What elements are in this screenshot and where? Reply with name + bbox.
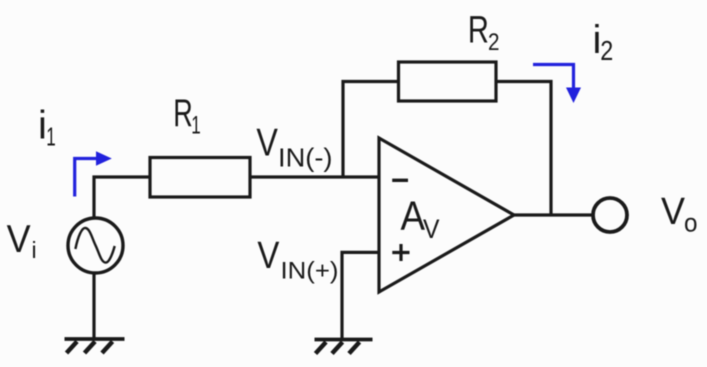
current arrow i1 (blue): [75, 151, 112, 196]
svg-text:R: R: [468, 10, 489, 52]
svg-text:1: 1: [191, 112, 201, 140]
svg-text:V: V: [423, 214, 440, 244]
op-amp minus pin mark: [392, 179, 408, 182]
wire: main input horizontal from source corner to op-amp inverting input: [94, 177, 379, 217]
current arrow i2 (blue): [533, 65, 581, 104]
svg-text:V: V: [256, 122, 278, 165]
sine wave inside source: [75, 228, 114, 263]
ground (right, under non-inverting input): [315, 340, 373, 354]
op-amp plus pin mark: [392, 244, 409, 261]
svg-text:2: 2: [600, 35, 613, 66]
ground (left, under source): [65, 339, 125, 353]
svg-text:1: 1: [46, 122, 56, 152]
wire: non-inverting input to right ground: [342, 252, 379, 340]
output terminal circle: [593, 198, 627, 232]
svg-text:V: V: [661, 191, 686, 233]
svg-text:R: R: [173, 92, 193, 135]
svg-text:IN(+): IN(+): [281, 257, 339, 284]
resistor R2: [399, 62, 497, 101]
wire: feedback left vertical from inverting node up to R2: [343, 82, 400, 178]
resistor R1: [150, 158, 250, 198]
wire: source bottom to left ground: [92, 274, 95, 340]
svg-text:IN(-): IN(-): [278, 142, 333, 172]
svg-text:V: V: [7, 218, 31, 261]
svg-text:A: A: [401, 193, 426, 239]
svg-text:V: V: [257, 235, 280, 277]
wire: op-amp output to terminal Vo: [512, 213, 592, 216]
svg-text:2: 2: [488, 29, 500, 56]
svg-text:i: i: [32, 237, 37, 263]
svg-text:o: o: [684, 208, 698, 238]
wire: feedback right from R2 to output node: [494, 82, 551, 216]
op-amp U1: [379, 138, 514, 292]
voltage source Vi (sine source): [68, 218, 123, 273]
